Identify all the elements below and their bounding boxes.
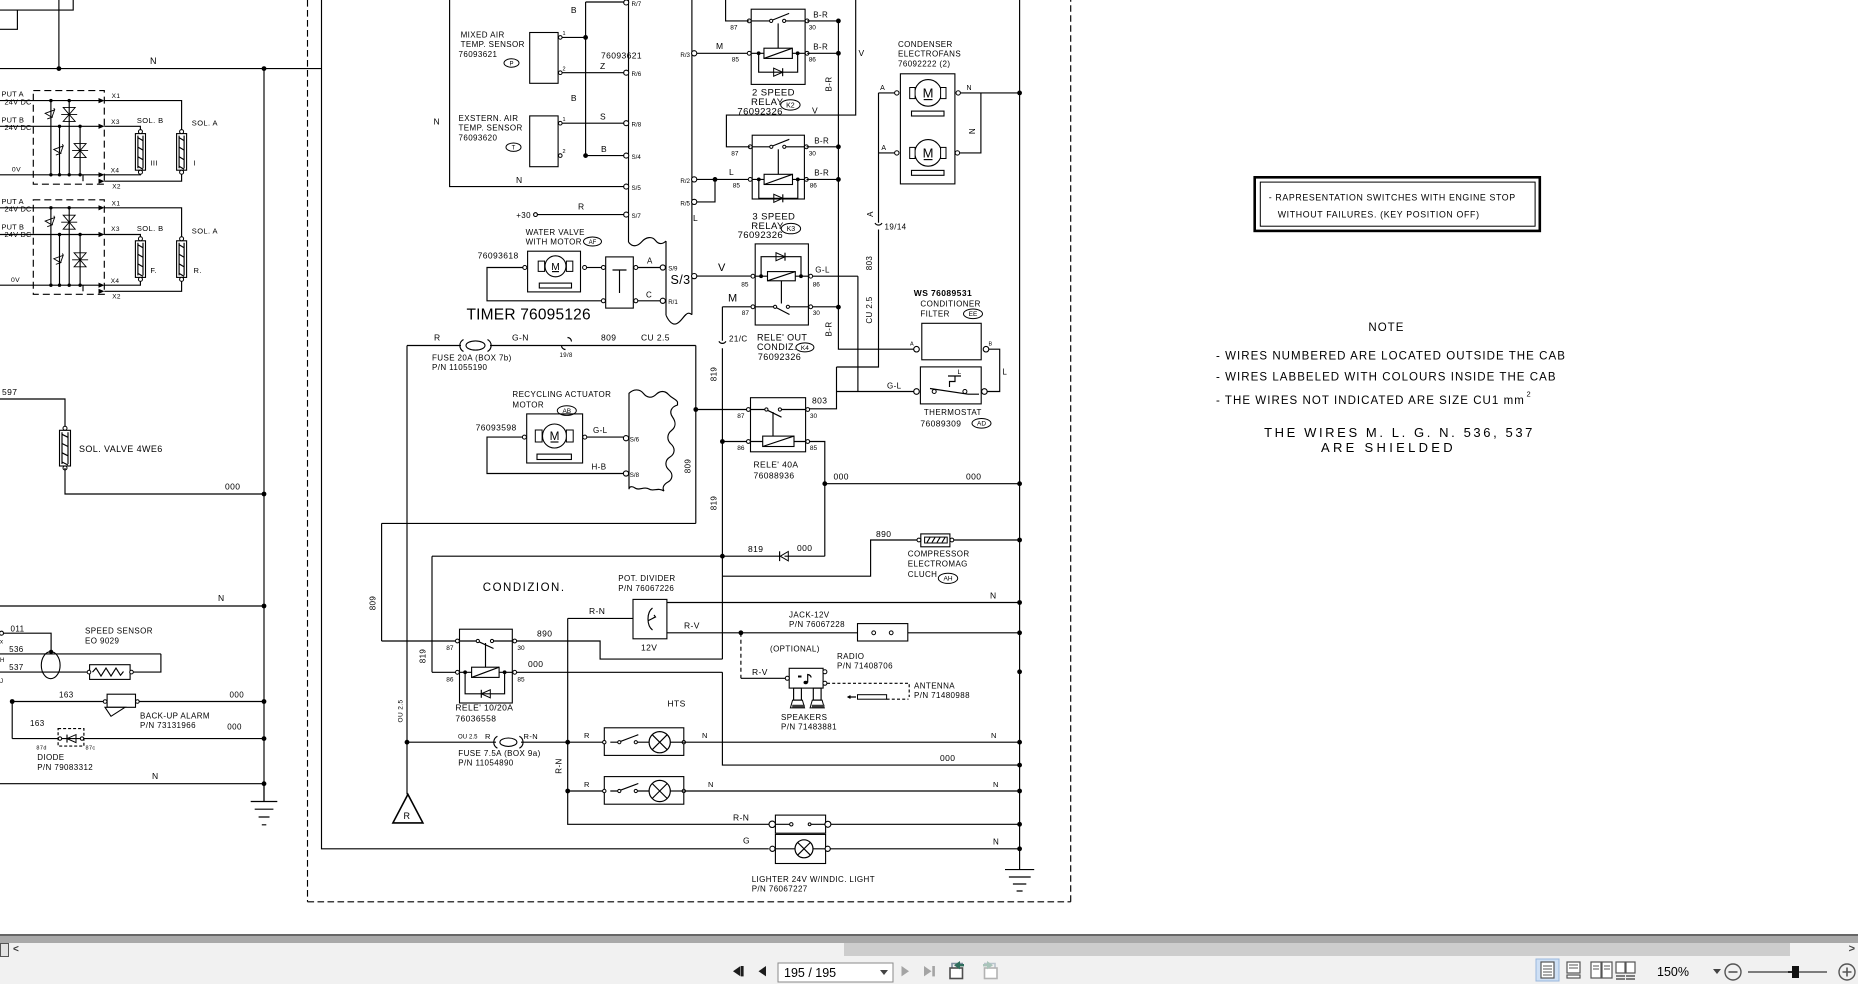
wire G-L K4-86 [813,275,858,277]
svg-text:HTS: HTS [668,699,686,709]
wire A fan1 [879,92,895,94]
svg-text:OU 2.5: OU 2.5 [458,735,478,741]
relay K2 (2 speed relay 76092326) [730,9,816,117]
connector R/2 [692,177,697,182]
svg-text:B-R: B-R [814,168,829,177]
svg-text:C: C [646,290,652,299]
harness boundary right column [665,241,667,315]
svg-text:M: M [716,41,723,51]
svg-text:30: 30 [517,645,525,652]
svg-text:000: 000 [797,543,812,553]
svg-text:FUSE 20A (BOX 7b): FUSE 20A (BOX 7b) [432,354,512,363]
svg-text:S/9: S/9 [668,266,678,273]
svg-text:N: N [967,85,972,92]
wire N riser [58,0,60,69]
svg-text:+30: +30 [516,211,531,220]
input wire PUT B 1 [0,125,101,127]
svg-text:000: 000 [227,723,242,732]
svg-text:P/N 71408706: P/N 71408706 [837,662,893,671]
pot divider P/N 76067226 [618,574,675,653]
svg-text:R/5: R/5 [680,200,690,207]
wire rele40A-85 to 000 [810,442,825,557]
svg-text:000: 000 [940,753,955,763]
svg-text:B-R: B-R [814,136,829,145]
svg-text:SOL. A: SOL. A [192,118,218,127]
wire G-L vertical to thermostat [857,276,859,391]
svg-text:WATER VALVE: WATER VALVE [526,228,585,237]
svg-text:R-N: R-N [589,606,605,616]
svg-text:24V DC: 24V DC [5,205,33,214]
svg-text:R-V: R-V [684,620,700,630]
svg-text:1: 1 [563,117,566,123]
svg-text:N: N [702,731,708,740]
conditioner filter WS 76089531 [910,288,993,360]
svg-text:19/8: 19/8 [560,353,574,359]
svg-text:R/3: R/3 [680,52,690,59]
wire stub to previous sheet (top-left upper) [0,0,73,10]
svg-text:M: M [550,429,560,443]
svg-text:21/C: 21/C [729,335,748,344]
svg-text:X1: X1 [112,200,121,207]
svg-text:AD: AD [977,421,986,428]
svg-text:150%: 150% [1657,965,1689,979]
svg-text:WS 76089531: WS 76089531 [914,288,972,298]
svg-text:87: 87 [742,310,750,317]
svg-text:A: A [647,257,653,266]
svg-text:809: 809 [684,459,693,474]
wire N fan2 jog [960,93,981,153]
svg-text:2: 2 [1527,390,1532,399]
wire 000 rele10/20A-85 to right bus [517,672,1020,765]
svg-text:CLUCH: CLUCH [908,570,938,579]
svg-text:G-L: G-L [593,426,608,435]
wire 819 to rele40A-86 [722,441,746,443]
jog X4-X2 2 [82,285,84,291]
svg-text:163: 163 [30,719,45,728]
jog X4-X2 1 [82,175,84,181]
wire SOL.A to X2 1 [104,174,181,181]
svg-text:R-N: R-N [524,732,539,741]
svg-text:SPEED SENSOR: SPEED SENSOR [85,627,153,636]
wire 890 rele10/20A-30 to compressor clutch [517,540,919,659]
relay K4 (rele out condiz 76092326) [741,244,820,362]
svg-text:X4: X4 [111,278,120,285]
connector 19/8 [560,338,574,360]
svg-text:N: N [150,56,157,66]
svg-text:TIMER 76095126: TIMER 76095126 [467,307,591,324]
fuse vertical feed (left, OU 2.5) [406,346,408,795]
svg-text:X3: X3 [111,119,120,126]
svg-text:B-R: B-R [813,42,828,51]
svg-text:163: 163 [59,691,74,700]
wire A timer to S/9 [638,267,661,269]
junction N/left bus [262,604,267,609]
svg-text:- WIRES NUMBERED ARE LOCATED O: - WIRES NUMBERED ARE LOCATED OUTSIDE THE… [1216,351,1566,363]
connector R/5 with jog [692,199,697,204]
svg-text:P/N 73131966: P/N 73131966 [140,721,196,730]
fan motor 2 [895,140,960,176]
svg-text:CU 2.5: CU 2.5 [641,333,670,343]
wire B-R bus vertical [838,21,914,349]
svg-text:000: 000 [230,691,245,700]
suppressor diodes 2 [51,208,69,285]
svg-text:819: 819 [709,367,718,382]
svg-text:R: R [404,811,411,821]
two page view [1591,962,1612,978]
svg-text:WITH MOTOR: WITH MOTOR [526,237,582,246]
speed sensor EO 9029 [0,625,161,686]
wire SOL.B to X4 2 [104,281,140,285]
connector 21/C [719,341,726,343]
svg-text:FUSE 7.5A (BOX 9a): FUSE 7.5A (BOX 9a) [458,749,540,758]
svg-text:J: J [0,679,3,685]
svg-text:597: 597 [2,387,17,397]
wire N (lower left) [0,783,264,785]
svg-text:76092222 (2): 76092222 (2) [898,59,950,68]
svg-text:P/N 76067226: P/N 76067226 [618,584,674,593]
wire 803 to rele40A-30 [808,367,837,409]
svg-text:V: V [859,48,865,58]
svg-text:X4: X4 [111,168,120,175]
svg-text:537: 537 [9,663,24,672]
connector 19/14 [875,223,882,225]
connector S/8 [623,471,628,476]
svg-text:- RAPRESENTATION SWITCHES WITH: - RAPRESENTATION SWITCHES WITH ENGINE ST… [1269,193,1516,203]
(EE) tag [964,309,983,319]
svg-text:0V: 0V [11,277,20,284]
svg-text:CONDENSER: CONDENSER [898,40,953,49]
wire B vertical [585,2,587,156]
ground symbol (left) [251,784,278,825]
svg-text:CONDIZ.: CONDIZ. [757,342,797,352]
svg-text:L: L [693,213,698,223]
wire 809 horizontal to left [382,522,696,524]
svg-text:WITHOUT FAILURES. (KEY POSITIO: WITHOUT FAILURES. (KEY POSITION OFF) [1278,210,1480,220]
svg-text:THERMOSTAT: THERMOSTAT [924,408,982,417]
svg-text:S/5: S/5 [632,185,642,192]
wire B-R K2-30 to bus [807,20,838,22]
wire 597 to solenoid valve [0,399,65,428]
svg-text:R: R [434,333,441,343]
zoom out button [1725,964,1741,980]
svg-text:RECYCLING ACTUATOR: RECYCLING ACTUATOR [512,390,611,399]
note box - rapresentation switches [1255,177,1540,231]
svg-text:2: 2 [563,67,566,73]
svg-text:SPEAKERS: SPEAKERS [781,713,827,722]
svg-text:K2: K2 [786,102,795,109]
wire N pot divider to right bus [667,602,1020,604]
diode P/N 79083312 [12,702,266,772]
wire G riser (left inner vertical) [322,0,769,849]
svg-text:- WIRES LABBELED WITH COLOURS: - WIRES LABBELED WITH COLOURS INSIDE THE… [1216,372,1557,384]
svg-text:890: 890 [876,529,891,539]
svg-text:T: T [512,146,516,152]
suppressor diodes 1 [51,101,69,175]
svg-text:30: 30 [813,310,821,317]
svg-text:A: A [910,342,914,348]
wire B to S/4 [586,155,624,157]
svg-text:THE WIRES M. L. G. N. 536, 537: THE WIRES M. L. G. N. 536, 537 [1264,425,1535,440]
svg-text:N: N [433,117,440,127]
svg-text:COMPRESSOR: COMPRESSOR [908,550,970,559]
svg-text:RELE' OUT: RELE' OUT [757,333,807,343]
solenoid coil SOL.A 1 [177,130,187,175]
wire B pin1 to B-column [562,36,585,38]
junction 000/left bus [262,492,267,497]
wire 809 vertical right [695,346,697,524]
svg-text:RADIO: RADIO [837,652,864,661]
svg-text:R-N: R-N [555,758,564,773]
wire +30 R to S/7 [534,213,538,217]
svg-text:L: L [1002,368,1007,377]
svg-text:MIXED AIR: MIXED AIR [461,31,505,40]
svg-text:19/14: 19/14 [885,223,907,232]
harness boundary wavy (upper) [629,238,667,246]
(K2) tag [781,100,800,110]
svg-text:86: 86 [446,677,454,684]
junction N/left bus [262,66,267,71]
svg-text:LIGHTER 24V W/INDIC. LIGHT: LIGHTER 24V W/INDIC. LIGHT [752,875,875,884]
horizontal scrollbar [0,943,1858,957]
(K3) tag [781,223,800,233]
svg-text:B-R: B-R [813,10,828,19]
relay rele 10/20A 76036558 [446,629,525,723]
svg-text:(OPTIONAL): (OPTIONAL) [770,645,820,654]
junction 000 [822,481,827,486]
wire C timer to R/1 [638,300,661,302]
svg-text:195 / 195: 195 / 195 [784,966,836,980]
svg-text:N: N [993,780,999,789]
junction 819 [720,554,725,559]
wire L filter-B to thermostat [987,349,1000,391]
wire M K4-87 to 21/C [722,307,751,341]
solenoid valve 4WE6 coil [60,426,71,470]
svg-text:EXSTERN. AIR: EXSTERN. AIR [459,114,519,123]
last page button (disabled) [924,966,935,976]
lighter 24V w/indic. light P/N 76067227 [752,815,875,893]
svg-text:P/N 71480988: P/N 71480988 [914,691,970,700]
svg-text:EE: EE [969,311,978,318]
svg-text:809: 809 [369,596,378,611]
svg-text:76089309: 76089309 [920,418,961,428]
svg-text:30: 30 [809,150,817,157]
svg-text:X3: X3 [111,226,120,233]
fan motor 1 [895,80,961,116]
svg-text:011: 011 [11,625,25,634]
svg-text:P/N 11054890: P/N 11054890 [458,759,514,768]
svg-text:H: H [0,658,5,664]
svg-text:AH: AH [943,576,952,583]
connector S/6 [623,436,628,441]
svg-text:P/N 76067227: P/N 76067227 [752,885,808,894]
single page view (active) [1536,959,1559,981]
connector R/3 [692,51,697,56]
svg-text:G-N: G-N [512,333,529,343]
svg-text:OU 2.5: OU 2.5 [398,700,405,723]
svg-text:890: 890 [537,629,552,639]
svg-text:Z: Z [600,61,606,71]
svg-text:X1: X1 [112,93,121,100]
svg-text:76088936: 76088936 [754,471,795,481]
wire R-V pot divider to jack [667,632,858,634]
svg-text:809: 809 [601,333,616,343]
svg-text:CU 2.5: CU 2.5 [865,296,874,323]
junction radio supply on right bus [1017,669,1022,674]
first page button [733,966,744,976]
svg-text:S/8: S/8 [630,472,640,479]
svg-text:P/N 76067228: P/N 76067228 [789,620,845,629]
svg-text:87: 87 [446,645,454,652]
svg-text:76093620: 76093620 [459,134,498,143]
svg-text:85: 85 [741,282,749,289]
splice K symbol [780,551,789,561]
svg-text:P/N 79083312: P/N 79083312 [37,763,93,772]
svg-text:30: 30 [810,413,818,420]
svg-text:POT. DIVIDER: POT. DIVIDER [618,574,675,583]
svg-text:ELECTROFANS: ELECTROFANS [898,50,961,59]
svg-text:76093621: 76093621 [459,50,498,59]
(T) sensor tag [506,143,521,152]
solenoid driver module (dashed enclosure) 1 [33,91,104,185]
svg-text:B: B [571,93,577,103]
(AD) tag [972,419,991,429]
svg-text:76093598: 76093598 [476,423,517,433]
svg-text:CONDITIONER: CONDITIONER [920,300,980,309]
wire A fan2 [879,152,895,154]
fuse 20A (BOX 7b) wire R/G-N/809 [407,333,696,373]
svg-text:85: 85 [517,677,525,684]
wire A/803 bus down to thermostat [837,93,879,367]
svg-text:AF: AF [589,240,597,246]
wire B-R K4-30 to bus [813,306,839,308]
cab harness connector column (sensors side) [628,0,630,242]
svg-text:76093618: 76093618 [478,250,519,260]
svg-text:ANTENNA: ANTENNA [914,681,955,690]
svg-text:- THE WIRES NOT INDICATED ARE: - THE WIRES NOT INDICATED ARE SIZE CU1 m… [1216,395,1525,407]
svg-text:R/8: R/8 [632,122,642,129]
wire X1 to SOL.A 2 [104,208,181,237]
svg-text:87: 87 [731,150,739,157]
svg-text:536: 536 [9,645,24,654]
svg-text:CONDIZION.: CONDIZION. [483,582,566,594]
next page button (disabled) [902,966,910,976]
radio P/N 71408706 [785,652,893,688]
svg-text:M: M [923,146,934,161]
svg-text:TEMP. SENSOR: TEMP. SENSOR [459,124,523,133]
relay rele 40A 76088936 [737,398,817,481]
junction 809/rele40A-87 [693,407,698,412]
svg-text:N: N [968,128,977,134]
ground symbol (right) [1005,870,1034,891]
svg-text:x: x [0,640,3,646]
wire 819 vertical from 21/C [721,348,723,659]
input wire PUT B 2 [0,234,101,236]
wire V S/3 to K4-85 [697,275,751,277]
svg-text:N: N [708,780,714,789]
svg-text:ELECTROMAG: ELECTROMAG [908,560,968,569]
scrolling page view [1567,962,1580,978]
wire S to R/8 [562,122,624,124]
svg-text:M: M [923,86,934,101]
svg-text:TEMP. SENSOR: TEMP. SENSOR [461,40,525,49]
svg-text:86: 86 [737,445,745,452]
harness boundary wavy (lower) [666,313,692,324]
svg-text:JACK-12V: JACK-12V [789,610,830,619]
solenoid driver module (dashed enclosure) 2 [33,200,104,294]
svg-text:0V: 0V [12,167,21,174]
wire G-L motor to S/6 [587,436,624,438]
svg-text:B: B [989,342,993,348]
svg-text:86: 86 [810,183,818,190]
water valve with motor 76093618 [478,228,587,292]
svg-text:R/7: R/7 [632,1,642,8]
condenser electrofans 76092222 (2) [898,40,961,184]
svg-text:BACK-UP ALARM: BACK-UP ALARM [140,712,210,721]
svg-text:G-L: G-L [815,265,830,274]
svg-text:R/2: R/2 [680,178,690,185]
wire thermostat feed [837,391,914,393]
svg-text:24V DC: 24V DC [5,97,33,106]
svg-text:85: 85 [810,445,818,452]
wire V from top to K3-87 [726,0,855,147]
wire X3 to SOL.B 1 [104,126,140,129]
wire L R/2 to K3-85 [697,178,750,180]
svg-text:N: N [991,731,997,740]
wire B-R K3-86 to bus [807,178,839,180]
svg-text:86: 86 [809,57,817,64]
svg-text:R: R [584,780,590,789]
svg-text:R-V: R-V [752,667,768,677]
svg-text:R: R [584,731,590,740]
svg-text:B: B [571,5,577,15]
wire clutch to right bus [954,539,1020,541]
svg-text:87: 87 [730,25,738,32]
svg-text:A: A [881,145,886,152]
input wire 0V 1 [0,174,101,176]
hts lamp circuit 2 [565,777,1022,805]
wire N (top horizontal) [0,68,322,70]
right N/000 bus vertical [1019,0,1021,870]
recycling actuator motor 76093598 [476,390,612,463]
svg-text:SOL. B: SOL. B [137,116,164,125]
viewer divider line [0,934,1858,936]
wire 000 row to right bus [825,483,1020,485]
wire motor right to timer [587,267,602,269]
solenoid coil SOL.B 1 [135,130,145,175]
svg-text:R: R [485,732,491,741]
speakers P/N 71483881 [781,688,837,732]
connector R/1 [660,298,665,303]
wire R-N riser (pot divider to lighter) [568,618,769,824]
wire X3 to SOL.B 2 [104,235,140,237]
input wire PUT A 1 [0,100,101,102]
svg-text:R-N: R-N [733,812,749,822]
svg-text:87c: 87c [86,746,96,752]
svg-text:RELE' 10/20A: RELE' 10/20A [455,703,513,713]
wire K2-87 riser [726,0,750,21]
wire B-R K2-86 to bus [807,52,838,54]
svg-text:R: R [578,202,585,212]
svg-text:12V: 12V [641,643,657,653]
svg-text:EO 9029: EO 9029 [85,637,120,646]
svg-text:SOL. VALVE 4WE6: SOL. VALVE 4WE6 [79,444,163,454]
optional dashed wire R-V [740,633,742,679]
zoom slider [1748,966,1827,978]
notes text [1216,322,1566,455]
left pane toggle button [0,943,9,957]
svg-text:819: 819 [709,496,718,511]
svg-text:S/4: S/4 [632,154,642,161]
